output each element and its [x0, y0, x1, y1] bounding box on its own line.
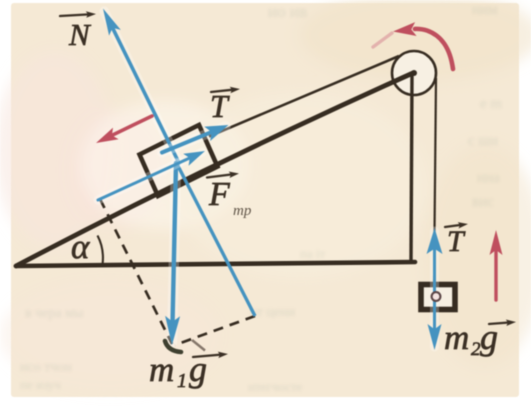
dashed line B to G	[175, 316, 255, 345]
svg-text:ио ив: ио ив	[268, 2, 307, 21]
svg-text:T: T	[447, 225, 466, 258]
red arrow downslope motion of m1	[96, 116, 152, 143]
dashed line A to G	[100, 199, 172, 344]
pulley axle dot	[411, 70, 417, 76]
svg-text:m: m	[149, 350, 174, 389]
block m2 hanging	[421, 285, 455, 310]
svg-text:m: m	[444, 318, 469, 357]
incline base wire	[16, 262, 415, 266]
pen hook at m1g tip	[165, 341, 181, 352]
svg-text:ним: ним	[472, 2, 498, 18]
svg-text:па іт: па іт	[300, 246, 326, 261]
svg-text:T: T	[210, 88, 230, 124]
angle alpha arc	[98, 236, 103, 265]
incline hypotenuse wire	[16, 73, 413, 266]
block m1 on incline	[140, 125, 218, 196]
svg-text:е m: е m	[480, 96, 502, 112]
svg-text:вис: вис	[472, 194, 494, 210]
m2 attachment ring	[432, 292, 441, 301]
svg-text:тр: тр	[233, 203, 252, 219]
svg-text:α: α	[71, 227, 90, 266]
vertical post wire	[411, 74, 412, 261]
rope vertical to m2	[434, 78, 436, 285]
svg-text:пе изуч: пе изуч	[20, 377, 61, 392]
svg-text:нна: нна	[477, 170, 500, 186]
svg-text:с ши: с ши	[468, 133, 498, 149]
vector m2g gravity	[428, 300, 442, 350]
stray pen mark near m1g	[192, 340, 205, 351]
vector N normal force	[103, 9, 179, 164]
faded tail of rotation arrow	[373, 33, 392, 47]
red curved arrow pulley rotation	[415, 29, 453, 69]
vector T tension on m2	[427, 228, 443, 293]
rope along incline	[209, 56, 399, 137]
red arrow upward motion of m2	[490, 230, 503, 300]
svg-text:N: N	[68, 17, 92, 52]
vector T tension on m1	[162, 125, 229, 153]
gravity component perpendicular OB	[177, 164, 255, 316]
svg-text:от цени: от цени	[250, 305, 296, 320]
svg-text:нсо тчон: нсо тчон	[20, 360, 72, 375]
svg-text:нтегчосте: нтегчосте	[248, 379, 303, 394]
svg-text:в чера мы: в чера мы	[25, 306, 84, 321]
pulley wheel	[392, 51, 436, 95]
friction force F with downslope component line	[98, 151, 205, 200]
vector m1g gravity	[165, 163, 180, 345]
svg-text:1: 1	[177, 370, 187, 392]
svg-text:F: F	[208, 176, 231, 213]
